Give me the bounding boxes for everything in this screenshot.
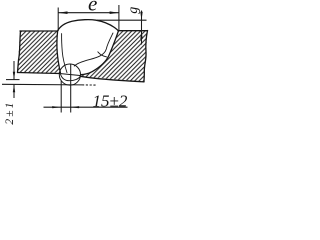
arrow g bottom — [140, 31, 142, 39]
svg-text:e: e — [88, 0, 97, 15]
right plate hatching — [81, 31, 148, 82]
dim e: dimension line — [58, 12, 119, 14]
root bead sag — [61, 74, 81, 81]
arrow 15pm2 right — [71, 106, 79, 108]
svg-text:15±2: 15±2 — [93, 91, 128, 110]
arrow e right — [110, 11, 119, 14]
arrow g top — [140, 12, 142, 20]
arrow 15pm2 left — [52, 106, 60, 108]
weld pass lens line — [98, 52, 107, 57]
right plate top edge — [118, 30, 147, 32]
dim 15pm2: left extension line — [60, 81, 62, 113]
dim 15pm2: dimension line — [44, 106, 128, 108]
left plate groove face — [57, 31, 60, 73]
root detail circle — [59, 64, 80, 85]
dim 2pm1: upper tick — [6, 79, 20, 81]
right plate groove face — [81, 31, 119, 75]
arrow 2pm1 bottom — [13, 85, 15, 93]
weld right fusion line — [74, 33, 113, 66]
dim e: right extension line — [118, 5, 120, 31]
arrow 2pm1 top — [13, 72, 15, 80]
dim 2pm1: dimension line lower — [13, 85, 15, 98]
dim g: dimension line — [141, 11, 143, 45]
dim g: tangent extension line — [97, 19, 147, 21]
root joint line — [60, 74, 81, 76]
root bottom reference line — [2, 83, 82, 86]
weld left fusion line — [62, 34, 67, 73]
left plate top edge — [20, 30, 58, 32]
dim 2pm1: dimension line upper — [13, 61, 15, 79]
left plate hatching — [18, 31, 61, 73]
left plate break edge — [18, 31, 21, 73]
weld cap bead — [58, 20, 119, 31]
arrow e left — [58, 11, 67, 14]
right plate bottom edge — [81, 76, 145, 82]
dim e: left extension line — [57, 8, 59, 32]
svg-text:2±1: 2±1 — [4, 100, 16, 124]
left plate bottom edge — [18, 73, 60, 74]
svg-text:g: g — [126, 7, 141, 14]
dim 15pm2: centerline extension — [70, 64, 72, 113]
right plate break edge — [144, 31, 148, 82]
root bottom reference line dotted tail — [82, 84, 97, 86]
